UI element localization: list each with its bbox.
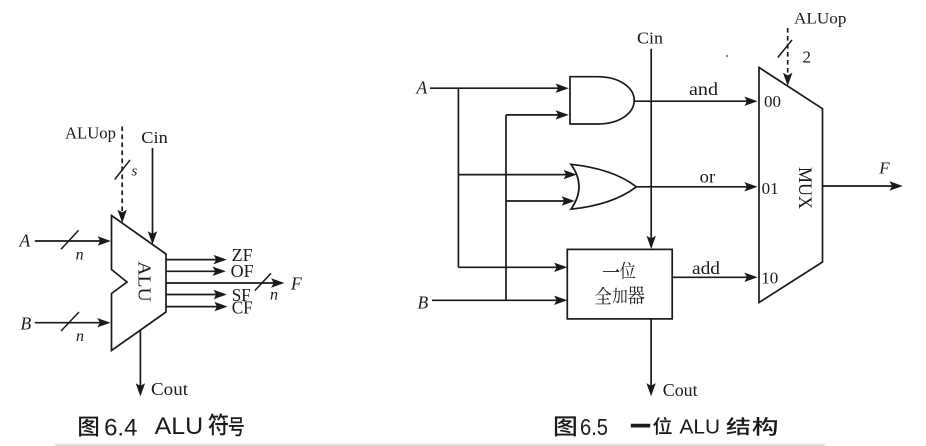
svg-text:Cout: Cout [151, 379, 188, 399]
bus slash on A wire [61, 230, 79, 249]
wire B branch to OR gate bottom input [506, 196, 575, 205]
label n width of F bus [270, 287, 278, 304]
label ALU rotated inside symbol [135, 261, 155, 302]
wire OF flag output [166, 267, 226, 276]
node label B (left input) [21, 313, 32, 333]
svg-text:6.5: 6.5 [580, 414, 608, 440]
svg-text:MUX: MUX [794, 167, 814, 210]
wire A branch to OR gate top input [458, 170, 576, 179]
pin label 01 [762, 179, 779, 198]
svg-text:B: B [418, 292, 429, 312]
node label A (right input) [416, 78, 428, 98]
label add [692, 258, 720, 278]
wire add: adder output to MUX input 10 [672, 273, 757, 282]
label CF [232, 297, 253, 317]
wire B branch to AND gate bottom input [506, 110, 569, 119]
wire A branch to adder top input [458, 263, 567, 272]
full adder box U2 [567, 249, 672, 319]
wire B input bus [35, 318, 111, 327]
wire F result bus [166, 278, 284, 287]
AND gate G1 [570, 77, 634, 124]
wire Cout from adder down [646, 319, 655, 396]
label 全加器 line2 in adder [595, 286, 645, 304]
label MUX rotated inside [794, 167, 814, 210]
svg-text:CF: CF [232, 297, 253, 317]
label and [689, 79, 718, 99]
wire A input bus [35, 236, 111, 245]
speck artifact [726, 55, 729, 58]
bus slash s on ALUop wire [115, 160, 130, 180]
svg-text:Cout: Cout [663, 380, 698, 400]
wire or: OR output to MUX input 01 [636, 182, 757, 191]
svg-text:B: B [21, 313, 32, 333]
label or [700, 167, 716, 187]
wire A to AND gate top input [430, 84, 569, 93]
label OF [231, 261, 254, 281]
svg-text:F: F [290, 274, 302, 294]
label Cin (right) [637, 28, 664, 47]
label ALUop (left) [65, 124, 116, 143]
wire A branch vertical [457, 88, 459, 267]
svg-text:add: add [692, 258, 720, 278]
svg-text:Cin: Cin [141, 128, 168, 147]
label Cin (left) [141, 128, 168, 147]
node label B (right input) [418, 292, 429, 312]
svg-text:s: s [132, 164, 138, 180]
scan smudge bottom edge [55, 444, 825, 446]
svg-text:n: n [76, 328, 84, 345]
bus slash 2 on ALUop wire [778, 40, 792, 58]
MUX multiplexer body [759, 68, 823, 303]
label n width of B bus [76, 328, 84, 345]
label 一位 line1 in adder [603, 262, 636, 279]
ALU symbol U1 body (figure 6.4) [112, 216, 167, 351]
OR gate G2 [571, 164, 636, 209]
label ALUop (right) [794, 11, 847, 28]
wire Cout output down [136, 330, 145, 397]
svg-text:01: 01 [762, 179, 779, 198]
svg-text:and: and [689, 79, 718, 99]
svg-text:6.4: 6.4 [104, 415, 137, 442]
svg-text:n: n [270, 287, 278, 304]
caption figure 6.4 ALU symbol [79, 413, 244, 442]
label Cout (right) [663, 380, 698, 400]
svg-text:or: or [700, 167, 716, 187]
svg-text:A: A [416, 78, 428, 98]
wire F output from MUX [823, 181, 903, 190]
svg-text:2: 2 [803, 48, 812, 67]
wire B branch vertical [505, 115, 507, 300]
label n width of A bus [76, 246, 84, 263]
caption figure 6.5 one-bit ALU structure [555, 414, 777, 440]
wire CF flag output [166, 302, 228, 311]
svg-text:Cin: Cin [637, 28, 664, 47]
bus slash on F wire [255, 273, 271, 290]
svg-text:ALU: ALU [135, 261, 155, 302]
wire SF flag output [166, 290, 227, 299]
label s bus width [132, 164, 138, 180]
svg-text:ALU: ALU [155, 413, 204, 440]
svg-text:ALU: ALU [680, 416, 721, 438]
svg-text:A: A [19, 230, 31, 250]
label 2 bus width [803, 48, 812, 67]
wire Cin into ALU top [148, 148, 157, 245]
label Cout (left) [151, 379, 188, 399]
wire Cin down into adder [647, 49, 656, 249]
wire ALUop dashed control into ALU [118, 127, 127, 224]
svg-text:10: 10 [761, 268, 778, 287]
svg-text:n: n [76, 246, 84, 263]
svg-text:ALUop: ALUop [65, 124, 116, 143]
svg-text:F: F [878, 159, 890, 178]
bus slash on B wire [61, 312, 79, 331]
label F output (right) [878, 159, 890, 178]
label SF [232, 285, 251, 305]
wire B to adder bottom input [432, 296, 567, 305]
node label A (left input) [19, 230, 31, 250]
svg-text:00: 00 [764, 92, 781, 111]
wire ALUop dashed control into MUX [783, 28, 792, 86]
label F result (left) [290, 274, 302, 294]
wire ZF flag output [166, 255, 227, 264]
pin label 10 [761, 268, 778, 287]
svg-text:ALUop: ALUop [794, 11, 847, 28]
pin label 00 [764, 92, 781, 111]
svg-text:OF: OF [231, 261, 254, 281]
wire and: AND output to MUX input 00 [634, 97, 757, 106]
label ZF [232, 245, 253, 265]
